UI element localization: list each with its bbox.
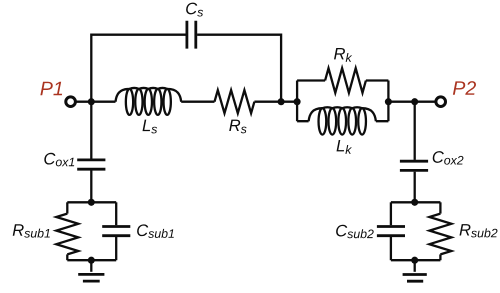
wire: node C down to Cox2 bbox=[414, 102, 416, 160]
node C (P2 junction) bbox=[411, 98, 418, 105]
capacitor C_sub2 bbox=[377, 227, 405, 236]
wire: Csub2 bottom lead bbox=[390, 237, 392, 260]
label L_k bbox=[337, 140, 352, 154]
label R_sub1 bbox=[13, 224, 50, 237]
capacitor C_s bbox=[187, 21, 196, 49]
wire: top branch leads bbox=[297, 79, 388, 81]
wire: left substrate box top bbox=[67, 201, 116, 203]
resistor R_sub1 bbox=[56, 214, 78, 255]
wire: Rsub2 bottom lead bbox=[439, 254, 441, 260]
resistor R_sub2 bbox=[429, 214, 451, 255]
label R_sub2 bbox=[460, 224, 498, 237]
junction: left substrate bottom bbox=[88, 257, 95, 264]
wire: from Cs right plate across top and down to node after Rs bbox=[197, 35, 281, 102]
capacitor C_sub1 bbox=[102, 227, 130, 236]
wire: node A down to Cox1 bbox=[90, 102, 92, 159]
wire: Cox1 to substrate box bbox=[90, 171, 92, 203]
node B (after Rs) bbox=[278, 98, 285, 105]
wire: bottom branch leads bbox=[297, 120, 388, 122]
wire: Rsub1 bottom lead bbox=[66, 254, 68, 260]
wire: Csub1 top lead bbox=[115, 202, 117, 225]
label C_s bbox=[186, 3, 203, 17]
wire: Rs to parallel box (through node B) bbox=[254, 101, 297, 103]
resistor R_k bbox=[325, 68, 366, 93]
inductor L_k bbox=[309, 107, 376, 134]
wire: left vertical from node A up and across top to Cs bbox=[91, 35, 185, 102]
label L_s bbox=[143, 120, 158, 134]
wire: box to P2 (through node C) bbox=[388, 101, 435, 103]
label C_ox2 bbox=[433, 151, 464, 165]
label C_ox1 bbox=[44, 153, 74, 167]
port terminal P2 bbox=[436, 97, 446, 107]
label C_sub1 bbox=[137, 224, 174, 238]
capacitor C_ox1 bbox=[77, 160, 105, 169]
wire: Rsub2 top lead bbox=[439, 202, 441, 213]
wire: Ls to Rs bbox=[181, 101, 214, 103]
port label P2 bbox=[453, 81, 476, 95]
inductor L_s bbox=[116, 88, 182, 115]
wire: right substrate box bottom bbox=[391, 259, 441, 261]
ground (right) bbox=[403, 260, 427, 281]
wire: Csub1 bottom lead bbox=[115, 237, 117, 260]
junction: right substrate bottom bbox=[411, 257, 418, 264]
port terminal P1 bbox=[66, 97, 76, 107]
junction: right substrate top bbox=[411, 199, 418, 206]
label R_k bbox=[334, 48, 352, 62]
junction: box left bbox=[294, 98, 301, 105]
junction: left substrate top bbox=[88, 199, 95, 206]
wire: right substrate box top bbox=[391, 201, 441, 203]
junction: box right bbox=[385, 98, 392, 105]
port label P1 bbox=[40, 82, 62, 95]
wire: P1 to node A bbox=[76, 101, 115, 103]
wire: Rsub1 top lead bbox=[66, 202, 68, 213]
label R_s bbox=[229, 120, 246, 134]
label C_sub2 bbox=[336, 225, 374, 239]
wire: Csub2 top lead bbox=[390, 202, 392, 225]
wire: left substrate box bottom bbox=[67, 259, 116, 261]
node A (P1 junction) bbox=[88, 98, 95, 105]
capacitor C_ox2 bbox=[400, 161, 428, 170]
ground (left) bbox=[78, 260, 104, 281]
wire: parallel box right vertical bbox=[387, 81, 389, 122]
wire: Cox2 to substrate box bbox=[414, 172, 416, 203]
wire: parallel box left vertical bbox=[296, 81, 298, 122]
resistor R_s bbox=[215, 90, 255, 113]
